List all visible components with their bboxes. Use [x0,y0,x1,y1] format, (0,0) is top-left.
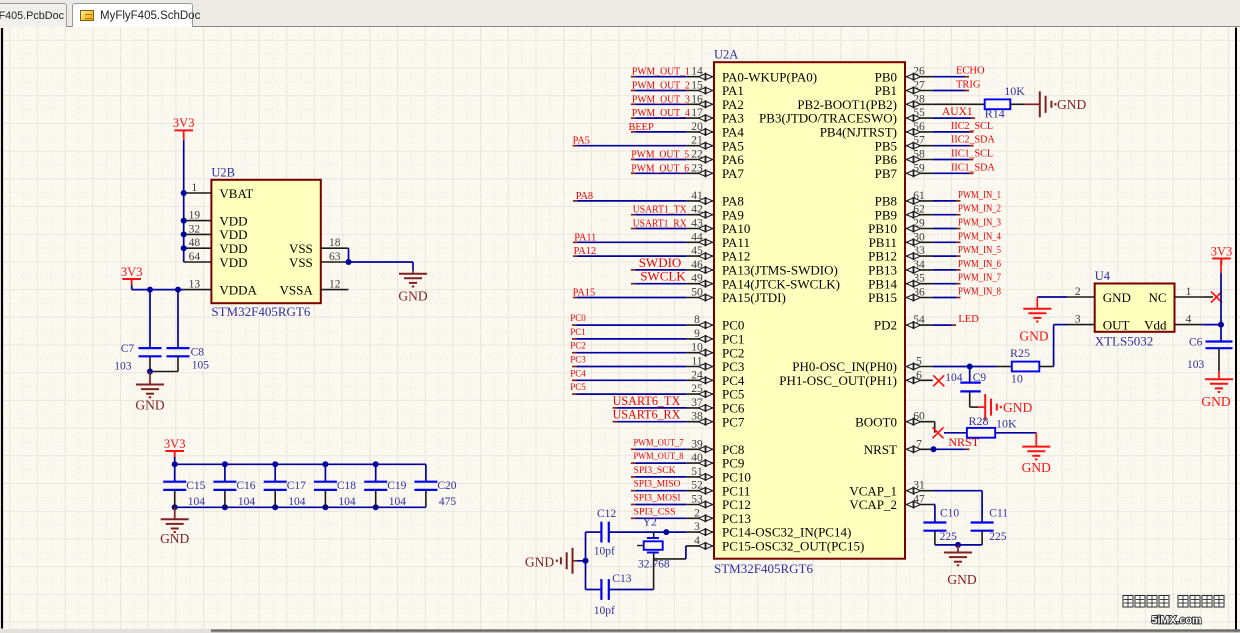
svg-text:104: 104 [389,496,407,508]
svg-text:PB11: PB11 [869,235,897,250]
svg-text:47: 47 [913,494,925,506]
svg-text:PA5: PA5 [573,136,590,147]
svg-text:IIC1_SCL: IIC1_SCL [951,149,993,160]
svg-text:PB4(NJTRST): PB4(NJTRST) [820,125,897,140]
svg-text:PC3: PC3 [722,359,744,374]
svg-text:42: 42 [691,204,703,216]
svg-text:PA2: PA2 [722,97,744,112]
svg-text:PA1: PA1 [722,83,744,98]
svg-text:25: 25 [691,383,703,395]
svg-text:40: 40 [691,452,703,464]
svg-text:PA11: PA11 [722,235,750,250]
svg-text:105: 105 [192,359,210,371]
svg-text:PA13(JTMS-SWDIO): PA13(JTMS-SWDIO) [722,263,838,278]
svg-text:PB5: PB5 [875,138,897,153]
svg-text:IIC2_SCL: IIC2_SCL [951,121,993,132]
svg-text:21: 21 [691,135,703,147]
svg-text:104: 104 [238,496,256,508]
svg-text:PWM_OUT_5: PWM_OUT_5 [631,150,689,161]
svg-text:57: 57 [913,135,925,147]
svg-text:10: 10 [691,342,703,354]
svg-text:PD2: PD2 [874,318,897,333]
svg-text:19: 19 [189,210,201,222]
svg-text:51: 51 [691,466,703,478]
svg-text:PC13: PC13 [722,511,751,526]
svg-text:PB13: PB13 [868,263,897,278]
svg-text:7: 7 [916,438,922,450]
svg-text:PA3: PA3 [722,111,744,126]
svg-text:GND: GND [135,398,164,413]
svg-text:PB3(JTDO/TRACESWO): PB3(JTDO/TRACESWO) [759,111,897,126]
svg-text:64: 64 [189,251,201,263]
svg-text:PA7: PA7 [722,166,744,181]
svg-text:15: 15 [691,80,703,92]
svg-text:PA12: PA12 [722,249,750,264]
svg-text:PA11: PA11 [574,232,596,243]
svg-text:10K: 10K [1004,84,1025,98]
svg-text:VCAP_2: VCAP_2 [849,497,897,512]
svg-text:TRIG: TRIG [956,80,981,91]
svg-text:PA15: PA15 [573,288,596,299]
svg-text:61: 61 [913,190,925,202]
svg-text:GND: GND [1057,97,1086,112]
svg-text:PWM_IN_8: PWM_IN_8 [958,287,1001,298]
svg-text:10K: 10K [996,417,1017,431]
svg-text:PC4: PC4 [570,368,586,378]
svg-text:C11: C11 [989,508,1008,520]
svg-text:C17: C17 [287,480,306,492]
svg-text:14: 14 [691,66,703,78]
svg-text:C15: C15 [186,480,205,492]
svg-text:5iMX.com: 5iMX.com [1152,615,1202,627]
svg-text:PWM_IN_3: PWM_IN_3 [958,218,1001,229]
svg-text:PC0: PC0 [722,318,744,333]
svg-text:PB10: PB10 [868,221,897,236]
svg-text:5: 5 [916,356,922,368]
svg-text:PWM_IN_4: PWM_IN_4 [958,231,1001,242]
svg-text:BEEP: BEEP [629,122,654,133]
svg-text:3V3: 3V3 [164,437,186,451]
svg-text:104: 104 [188,496,206,508]
svg-text:1: 1 [192,182,198,194]
svg-text:20: 20 [691,121,703,133]
svg-text:PC0: PC0 [570,313,586,323]
svg-text:C9: C9 [973,372,987,384]
svg-text:R25: R25 [1010,346,1030,360]
svg-text:9: 9 [694,328,700,340]
svg-text:2: 2 [1075,286,1081,298]
svg-text:PC5: PC5 [722,387,744,402]
svg-text:59: 59 [913,162,925,174]
svg-text:225: 225 [989,531,1007,543]
svg-text:48: 48 [189,237,201,249]
svg-text:USART6_TX: USART6_TX [613,393,681,408]
svg-text:C20: C20 [437,480,456,492]
svg-text:PA5: PA5 [722,138,744,153]
svg-text:34: 34 [913,259,925,271]
svg-text:C6: C6 [1189,337,1203,349]
svg-text:GND: GND [1019,329,1048,344]
svg-text:PB14: PB14 [868,276,897,291]
svg-text:16: 16 [691,93,703,105]
svg-text:NRST: NRST [948,435,979,449]
svg-text:26: 26 [913,66,925,78]
svg-text:PC1: PC1 [570,327,586,337]
svg-text:SWDIO: SWDIO [639,255,682,270]
svg-text:3V3: 3V3 [121,265,143,279]
svg-text:30: 30 [913,231,925,243]
svg-text:29: 29 [913,218,925,230]
svg-text:C19: C19 [387,480,406,492]
svg-text:PWM_IN_6: PWM_IN_6 [958,259,1001,270]
svg-text:C7: C7 [121,343,135,355]
svg-text:36: 36 [913,287,925,299]
svg-text:31: 31 [913,480,925,492]
svg-text:SPI3_SCK: SPI3_SCK [634,466,676,476]
svg-text:PA4: PA4 [722,125,744,140]
svg-text:18: 18 [329,237,341,249]
svg-text:53: 53 [691,494,703,506]
svg-text:Y2: Y2 [643,517,657,529]
svg-text:VDD: VDD [219,227,247,242]
svg-text:VDD: VDD [219,255,247,270]
svg-text:32: 32 [189,223,201,235]
svg-text:55: 55 [913,107,925,119]
svg-text:41: 41 [691,190,703,202]
svg-text:U2A: U2A [714,48,738,62]
svg-text:PA10: PA10 [722,221,750,236]
svg-text:PB0: PB0 [875,69,897,84]
svg-text:49: 49 [691,273,703,285]
svg-text:10: 10 [1011,372,1023,386]
svg-text:10pf: 10pf [594,546,615,558]
svg-text:58: 58 [913,149,925,161]
svg-text:43: 43 [691,218,703,230]
svg-text:C13: C13 [612,573,631,585]
svg-text:3: 3 [694,521,700,533]
svg-text:22: 22 [691,149,703,161]
svg-text:SPI3_MISO: SPI3_MISO [634,480,681,490]
svg-text:GND: GND [947,572,976,587]
svg-text:STM32F405RGT6: STM32F405RGT6 [211,304,310,319]
svg-text:PC1: PC1 [722,332,744,347]
svg-text:USART1_TX: USART1_TX [633,205,688,216]
svg-text:PH0-OSC_IN(PH0): PH0-OSC_IN(PH0) [792,359,897,374]
svg-text:27: 27 [913,80,925,92]
svg-text:U2B: U2B [211,165,235,179]
svg-text:R14: R14 [985,107,1005,121]
svg-text:PA14(JTCK-SWCLK): PA14(JTCK-SWCLK) [722,276,840,291]
svg-text:GND: GND [1103,290,1131,305]
svg-text:OUT: OUT [1103,318,1130,333]
svg-text:PB2-BOOT1(PB2): PB2-BOOT1(PB2) [797,97,897,112]
svg-text:PA6: PA6 [722,152,744,167]
svg-text:3: 3 [1075,314,1081,326]
svg-text:103: 103 [1187,359,1205,371]
svg-text:PWM_OUT_6: PWM_OUT_6 [631,163,689,174]
svg-text:PH1-OSC_OUT(PH1): PH1-OSC_OUT(PH1) [779,373,897,388]
svg-text:104: 104 [338,496,356,508]
svg-text:PC10: PC10 [722,470,751,485]
svg-text:4: 4 [1186,314,1192,326]
svg-text:56: 56 [913,121,925,133]
svg-text:28: 28 [913,93,925,105]
svg-text:3V3: 3V3 [173,116,195,130]
svg-text:45: 45 [691,245,703,257]
svg-text:IIC2_SDA: IIC2_SDA [951,135,995,146]
svg-text:39: 39 [691,438,703,450]
svg-text:VSSA: VSSA [280,282,314,297]
svg-text:SWCLK: SWCLK [640,269,686,284]
svg-text:PC14-OSC32_IN(PC14): PC14-OSC32_IN(PC14) [722,525,851,540]
svg-text:NRST: NRST [864,442,897,457]
svg-text:C18: C18 [337,480,356,492]
svg-text:33: 33 [913,245,925,257]
svg-text:54: 54 [913,314,925,326]
svg-text:PWM_OUT_1: PWM_OUT_1 [632,67,690,78]
svg-text:U4: U4 [1095,269,1111,283]
svg-text:BOOT0: BOOT0 [855,414,897,429]
svg-text:PC3: PC3 [570,355,586,365]
svg-text:C10: C10 [940,508,959,520]
svg-text:VCAP_1: VCAP_1 [849,483,897,498]
svg-text:XTLS5032: XTLS5032 [1095,333,1154,348]
svg-text:PWM_OUT_2: PWM_OUT_2 [632,81,690,92]
svg-text:STM32F405RGT6: STM32F405RGT6 [714,561,813,576]
svg-text:C16: C16 [236,480,255,492]
svg-text:475: 475 [439,496,457,508]
svg-text:PC11: PC11 [722,483,750,498]
svg-text:1: 1 [1186,286,1192,298]
svg-text:PC15-OSC32_OUT(PC15): PC15-OSC32_OUT(PC15) [722,539,864,554]
svg-text:38: 38 [691,411,703,423]
svg-text:PWM_IN_7: PWM_IN_7 [958,273,1001,284]
svg-text:PA12: PA12 [574,246,597,257]
svg-text:17: 17 [691,107,703,119]
svg-text:PC12: PC12 [722,497,751,512]
svg-text:GND: GND [1003,400,1032,415]
svg-text:PC8: PC8 [722,442,744,457]
svg-text:PA0-WKUP(PA0): PA0-WKUP(PA0) [722,69,817,84]
svg-text:24: 24 [691,369,703,381]
svg-text:PWM_OUT_4: PWM_OUT_4 [632,108,690,119]
svg-text:2: 2 [694,507,700,519]
svg-text:50: 50 [691,287,703,299]
svg-text:PB15: PB15 [868,290,897,305]
svg-text:62: 62 [913,204,925,216]
svg-text:PC6: PC6 [722,401,745,416]
svg-text:PB7: PB7 [875,166,898,181]
svg-text:PWM_OUT_7: PWM_OUT_7 [634,438,684,448]
svg-text:44: 44 [691,231,703,243]
svg-text:VDD: VDD [219,241,247,256]
svg-text:11: 11 [691,356,702,368]
svg-text:104: 104 [945,372,963,384]
svg-text:PWM_IN_5: PWM_IN_5 [958,245,1001,256]
svg-text:R28: R28 [969,414,989,428]
svg-text:PC9: PC9 [722,456,744,471]
svg-text:103: 103 [114,361,132,373]
svg-text:USART1_RX: USART1_RX [633,219,688,230]
svg-text:C8: C8 [191,346,205,358]
svg-text:PC5: PC5 [570,382,586,392]
svg-text:GND: GND [1201,394,1230,409]
svg-text:ECHO: ECHO [956,66,985,77]
svg-text:3V3: 3V3 [1211,244,1233,258]
svg-text:VDD: VDD [219,213,247,228]
svg-text:LED: LED [958,314,979,325]
svg-text:AUX1: AUX1 [942,106,973,118]
svg-text:4: 4 [694,535,700,547]
svg-text:PWM_OUT_3: PWM_OUT_3 [632,94,690,105]
svg-text:C12: C12 [597,508,616,520]
svg-text:PB8: PB8 [875,194,897,209]
svg-text:PC2: PC2 [570,341,586,351]
svg-text:VBAT: VBAT [219,186,253,201]
svg-text:PB9: PB9 [875,207,897,222]
svg-text:37: 37 [691,397,703,409]
svg-text:PC2: PC2 [722,345,744,360]
svg-text:IIC1_SDA: IIC1_SDA [951,162,995,173]
svg-text:PWM_IN_2: PWM_IN_2 [958,204,1001,215]
svg-text:46: 46 [691,259,703,271]
svg-text:GND: GND [398,288,427,303]
svg-text:PC7: PC7 [722,414,745,429]
svg-text:PA9: PA9 [722,207,744,222]
svg-text:PWM_OUT_8: PWM_OUT_8 [634,452,684,462]
svg-text:225: 225 [940,531,958,543]
svg-text:VDDA: VDDA [219,282,257,297]
svg-text:SPI3_MOSI: SPI3_MOSI [634,494,681,504]
svg-text:PB6: PB6 [875,152,898,167]
svg-text:VSS: VSS [289,255,313,270]
svg-text:VSS: VSS [289,241,313,256]
svg-text:23: 23 [691,162,703,174]
svg-text:GND: GND [525,555,554,570]
svg-text:PC4: PC4 [722,373,745,388]
svg-text:10pf: 10pf [594,605,615,617]
svg-text:8: 8 [694,314,700,326]
svg-text:52: 52 [691,480,703,492]
svg-text:63: 63 [329,251,341,263]
svg-text:PA15(JTDI): PA15(JTDI) [722,290,786,305]
svg-text:60: 60 [913,411,925,423]
svg-text:GND: GND [1022,460,1051,475]
svg-text:104: 104 [288,496,306,508]
svg-text:35: 35 [913,273,925,285]
svg-text:12: 12 [329,279,341,291]
svg-text:PWM_IN_1: PWM_IN_1 [958,190,1001,201]
svg-text:PB1: PB1 [875,83,897,98]
svg-text:NC: NC [1148,290,1166,305]
svg-text:PA8: PA8 [722,194,744,209]
svg-text:PB12: PB12 [868,249,897,264]
svg-text:13: 13 [189,279,201,291]
svg-text:USART6_RX: USART6_RX [613,407,681,422]
svg-text:Vdd: Vdd [1144,318,1167,333]
svg-text:GND: GND [160,531,189,546]
svg-text:6: 6 [916,369,922,381]
svg-text:PA8: PA8 [576,191,593,202]
